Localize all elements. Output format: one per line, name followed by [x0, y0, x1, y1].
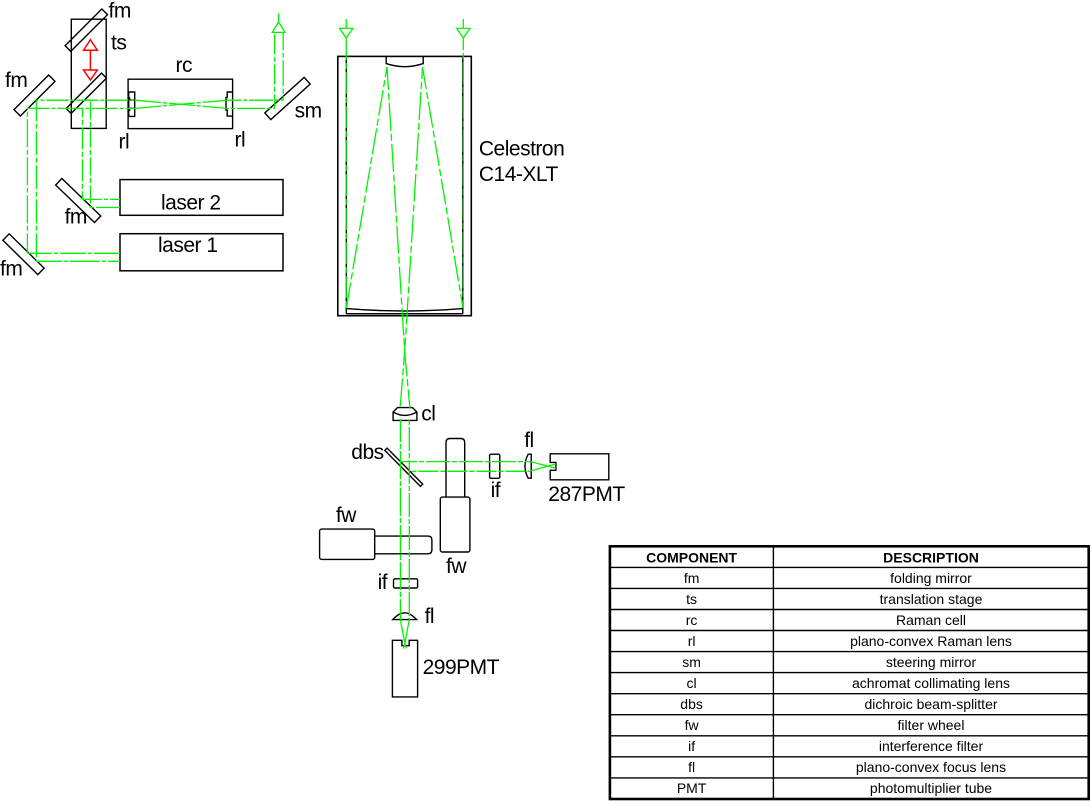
svg-text:sm: sm [295, 100, 322, 123]
svg-text:DESCRIPTION: DESCRIPTION [883, 549, 979, 565]
output beam arrowhead above sm [272, 14, 285, 33]
laser 2 box [120, 180, 283, 216]
plano-convex Raman lens rl (right) [226, 92, 233, 116]
299PMT box with entrance notch [392, 640, 417, 697]
telescope input arrow right [457, 19, 470, 38]
287PMT box with entrance notch [550, 454, 609, 480]
telescope input ray left [345, 38, 347, 309]
svg-text:fw: fw [336, 504, 357, 527]
wire dbs reflected upper beam [401, 461, 530, 463]
svg-text:steering mirror: steering mirror [886, 654, 977, 670]
legend table [610, 546, 1089, 799]
svg-text:cl: cl [421, 403, 435, 426]
svg-text:fl: fl [688, 759, 695, 775]
svg-text:laser 2: laser 2 [161, 192, 221, 215]
folding mirror (active, on translation stage) [66, 73, 106, 113]
svg-text:Celestron: Celestron [479, 137, 564, 160]
telescope primary mirror [346, 306, 463, 314]
wire main lower horizontal to Raman cell [27, 107, 135, 109]
svg-text:COMPONENT: COMPONENT [646, 549, 737, 565]
svg-text:C14-XLT: C14-XLT [479, 163, 559, 186]
svg-text:rc: rc [176, 54, 193, 77]
reflected ray primary-left to secondary [346, 67, 387, 308]
svg-text:fw: fw [685, 717, 700, 733]
svg-text:photomultiplier tube: photomultiplier tube [870, 780, 992, 796]
translation stage ts box [71, 19, 106, 128]
wire sm vertical right [282, 32, 284, 100]
wire laser2 vertical left [81, 108, 83, 199]
svg-text:filter wheel: filter wheel [898, 717, 965, 733]
svg-text:rl: rl [688, 633, 696, 649]
svg-text:dichroic beam-splitter: dichroic beam-splitter [864, 696, 997, 712]
svg-text:laser 1: laser 1 [158, 234, 218, 257]
plano-convex focus lens fl (right path) [525, 454, 531, 478]
svg-text:if: if [491, 479, 501, 502]
plano-convex focus lens fl (bottom path) [393, 613, 417, 620]
svg-text:rc: rc [686, 612, 698, 628]
svg-text:achromat collimating lens: achromat collimating lens [852, 675, 1010, 691]
wire laser1 vertical left [26, 108, 28, 253]
green beam paths [27, 14, 556, 649]
svg-text:299PMT: 299PMT [423, 656, 500, 679]
svg-text:fm: fm [5, 69, 27, 92]
Raman cell rc box [128, 79, 233, 128]
converging ray secondary-left to collimating lens [387, 67, 410, 408]
svg-text:287PMT: 287PMT [548, 483, 625, 506]
interference filter if (bottom path) [394, 579, 418, 588]
folding mirror fm (parked, on translation stage) [65, 9, 107, 51]
wire lower horizontal rc to sm [227, 107, 275, 109]
wire crossing rays inside Raman cell [135, 100, 227, 108]
svg-text:fl: fl [425, 605, 435, 628]
svg-text:ts: ts [686, 591, 697, 607]
svg-text:fm: fm [109, 0, 131, 23]
interference filter if (right path) [490, 454, 500, 478]
svg-text:plano-convex Raman lens: plano-convex Raman lens [850, 633, 1012, 649]
red translation-stage arrow [84, 40, 98, 80]
svg-text:interference filter: interference filter [879, 738, 984, 754]
folding mirror fm (laser 1) [3, 234, 44, 275]
folding mirror fm (top-left) [14, 75, 55, 116]
svg-text:rl: rl [235, 129, 246, 152]
wire laser1 vertical right [35, 100, 37, 261]
svg-text:plano-convex focus lens: plano-convex focus lens [856, 759, 1006, 775]
svg-text:translation stage: translation stage [880, 591, 983, 607]
svg-text:fm: fm [684, 570, 700, 586]
svg-text:if: if [378, 571, 388, 594]
filter wheel fw (horizontal barrel) [375, 536, 432, 554]
telescope input arrow left [340, 19, 353, 38]
svg-text:if: if [688, 738, 695, 754]
wire laser1 upper beam [27, 252, 120, 254]
svg-text:PMT: PMT [677, 780, 707, 796]
filter wheel fw (vertical barrel) [446, 439, 465, 498]
telescope secondary mirror [386, 56, 423, 66]
svg-text:fl: fl [524, 429, 534, 452]
converging ray secondary-right to collimating lens [400, 67, 422, 408]
svg-text:Raman cell: Raman cell [896, 612, 966, 628]
wire laser2 lower beam [90, 207, 120, 209]
svg-text:sm: sm [682, 654, 701, 670]
wire laser2 vertical right [89, 100, 91, 207]
svg-text:folding mirror: folding mirror [890, 570, 972, 586]
dichroic beam-splitter dbs [385, 448, 423, 486]
svg-text:fm: fm [65, 206, 87, 229]
wire sm vertical left [274, 32, 276, 108]
reflected ray primary-right to secondary [423, 67, 464, 308]
focusing rays into 299PMT [400, 620, 409, 649]
wire laser1 lower beam [36, 260, 120, 262]
table text [646, 549, 1012, 796]
telescope input ray right [462, 38, 464, 309]
wire laser2 upper beam [82, 198, 120, 200]
focusing rays into 287PMT [531, 462, 556, 471]
wire collimated vertical right [408, 420, 410, 620]
folding mirror fm (laser 2) [56, 179, 101, 223]
telescope tube inner wall right [462, 56, 464, 313]
achromat collimating lens cl [393, 408, 417, 421]
steering mirror sm [265, 77, 310, 119]
svg-text:cl: cl [687, 675, 697, 691]
svg-text:fm: fm [0, 258, 22, 281]
telescope tube outer [338, 56, 472, 315]
wire main upper horizontal to Raman cell [36, 99, 135, 101]
plano-convex Raman lens rl (left) [129, 92, 135, 116]
svg-text:fw: fw [446, 555, 467, 578]
telescope tube inner wall left [345, 56, 347, 313]
svg-text:dbs: dbs [351, 441, 383, 464]
wire dbs reflected lower beam [410, 470, 531, 472]
wire upper horizontal rc to sm [227, 99, 283, 101]
svg-text:rl: rl [119, 131, 130, 154]
wire collimated vertical left [399, 420, 401, 620]
laser 1 box [120, 234, 283, 271]
svg-text:ts: ts [111, 32, 126, 55]
svg-text:dbs: dbs [680, 696, 703, 712]
